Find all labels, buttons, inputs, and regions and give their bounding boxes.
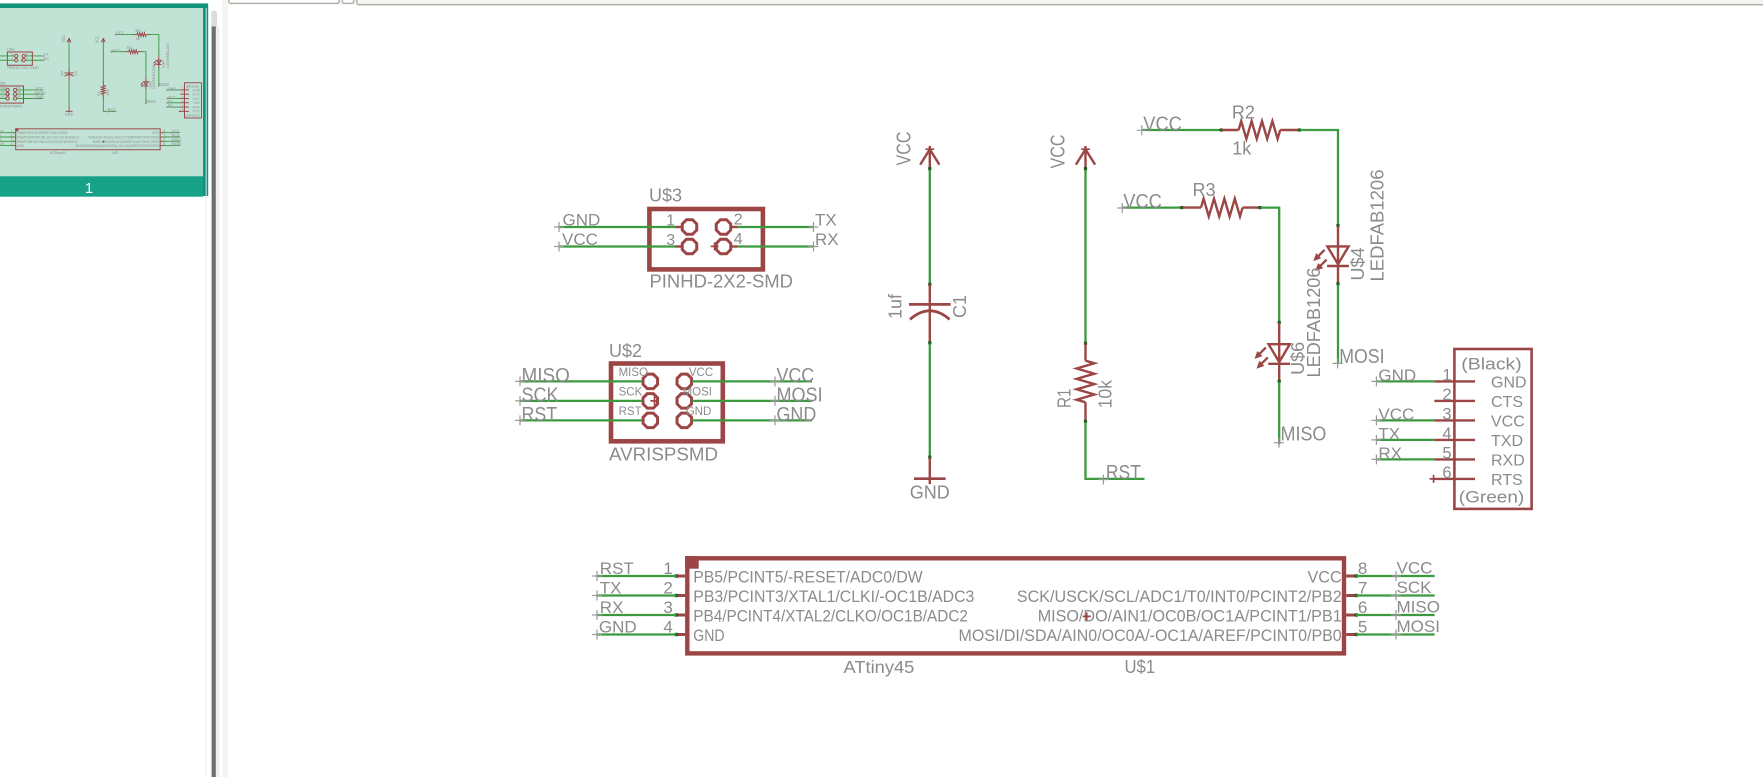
svg-text:VCC: VCC bbox=[152, 131, 160, 135]
svg-text:1k: 1k bbox=[136, 36, 140, 41]
svg-text:RST: RST bbox=[108, 107, 116, 112]
sidebar selection border right bbox=[203, 3, 208, 196]
svg-text:PB4/PCINT4/XTAL2/CLKO/OC1B/ADC: PB4/PCINT4/XTAL2/CLKO/OC1B/ADC2 bbox=[17, 140, 77, 144]
scrollbar thumb top bbox=[211, 11, 217, 30]
svg-text:GND: GND bbox=[0, 142, 5, 146]
svg-text:U$1: U$1 bbox=[112, 150, 119, 155]
schematic main bbox=[515, 102, 1532, 677]
svg-text:PINHD-2X2-SMD: PINHD-2X2-SMD bbox=[7, 65, 39, 70]
svg-text:SCK: SCK bbox=[172, 134, 180, 138]
sidebar thumbnail mint background bbox=[0, 8, 203, 176]
svg-text:5: 5 bbox=[182, 104, 184, 108]
svg-text:TXD: TXD bbox=[193, 101, 200, 105]
svg-text:AVRISPSMD: AVRISPSMD bbox=[0, 103, 23, 108]
scrollbar track edge bbox=[205, 8, 208, 777]
svg-text:ATtiny45: ATtiny45 bbox=[50, 151, 66, 155]
toolbar strip background bbox=[222, 0, 1763, 5]
svg-text:U$3: U$3 bbox=[7, 46, 15, 51]
svg-text:VCC: VCC bbox=[172, 129, 180, 133]
svg-text:VCC: VCC bbox=[116, 31, 124, 36]
svg-text:VCC: VCC bbox=[168, 95, 176, 99]
svg-text:MOSI: MOSI bbox=[172, 142, 182, 146]
svg-text:R3: R3 bbox=[127, 45, 133, 50]
svg-text:GND: GND bbox=[65, 112, 74, 117]
svg-text:VCC: VCC bbox=[61, 35, 66, 42]
svg-text:1uf: 1uf bbox=[59, 70, 64, 76]
svg-text:TX: TX bbox=[168, 100, 173, 104]
svg-text:3: 3 bbox=[182, 95, 184, 99]
svg-text:MISO: MISO bbox=[146, 99, 157, 104]
svg-text:GND: GND bbox=[193, 88, 201, 92]
svg-text:(Black): (Black) bbox=[186, 84, 199, 88]
svg-text:GND: GND bbox=[17, 144, 24, 148]
sidebar page bar bbox=[0, 176, 203, 197]
svg-text:RX: RX bbox=[44, 57, 50, 61]
svg-text:TX: TX bbox=[44, 53, 49, 57]
svg-text:R1: R1 bbox=[96, 91, 101, 95]
svg-text:(Green): (Green) bbox=[185, 114, 199, 118]
svg-text:RST: RST bbox=[1, 95, 6, 98]
toolbar long field bbox=[357, 0, 1763, 5]
svg-text:2: 2 bbox=[182, 91, 184, 95]
svg-text:RXD: RXD bbox=[193, 105, 201, 109]
svg-text:GND: GND bbox=[35, 95, 44, 100]
svg-text:1: 1 bbox=[182, 87, 184, 91]
svg-text:RTS: RTS bbox=[193, 110, 201, 114]
svg-text:PB5/PCINT5/-RESET/ADC0/DW: PB5/PCINT5/-RESET/ADC0/DW bbox=[17, 131, 68, 135]
svg-text:6: 6 bbox=[182, 108, 184, 112]
svg-text:GND: GND bbox=[168, 87, 177, 91]
svg-text:1: 1 bbox=[85, 180, 93, 197]
sidebar thumbnail mini schematic bbox=[0, 28, 201, 155]
svg-text:LEDFAB1206: LEDFAB1206 bbox=[165, 42, 170, 67]
svg-text:LEDFAB1206: LEDFAB1206 bbox=[151, 64, 156, 89]
svg-text:CTS: CTS bbox=[193, 93, 201, 97]
svg-text:RX: RX bbox=[168, 104, 174, 108]
svg-text:MISO: MISO bbox=[1, 87, 7, 90]
svg-text:PB3/PCINT3/XTAL1/CLKI/-OC1B/AD: PB3/PCINT3/XTAL1/CLKI/-OC1B/ADC3 bbox=[17, 135, 79, 139]
canvas left tint bbox=[222, 5, 227, 777]
svg-text:VCC: VCC bbox=[95, 36, 100, 43]
svg-text:MOSI: MOSI bbox=[159, 82, 169, 87]
svg-text:C1: C1 bbox=[73, 71, 78, 76]
svg-text:VCC: VCC bbox=[193, 97, 201, 101]
svg-text:U$2: U$2 bbox=[0, 81, 6, 86]
svg-text:SCK: SCK bbox=[1, 91, 6, 94]
splitter light edge bbox=[216, 27, 219, 777]
splitter dark bar bbox=[212, 27, 216, 777]
sidebar selection border top bbox=[0, 3, 203, 8]
svg-text:SCK/USCK/SCL/ADC1/T0/INT0/PCIN: SCK/USCK/SCL/ADC1/T0/INT0/PCINT2/PB2 bbox=[88, 135, 159, 139]
svg-text:MISO: MISO bbox=[172, 138, 182, 142]
svg-text:VCC: VCC bbox=[112, 48, 120, 53]
toolbar button 2 bbox=[342, 0, 353, 3]
svg-text:R2: R2 bbox=[136, 28, 141, 33]
svg-text:MOSI: MOSI bbox=[15, 91, 22, 94]
svg-text:GND: GND bbox=[15, 95, 21, 98]
svg-text:4: 4 bbox=[182, 100, 184, 104]
toolbar button 1 bbox=[229, 0, 339, 3]
svg-text:VCC: VCC bbox=[16, 87, 21, 90]
svg-text:MOSI/DI/SDA/AIN0/OC0A/-OC1A/AR: MOSI/DI/SDA/AIN0/OC0A/-OC1A/AREF/PCINT0/… bbox=[75, 144, 159, 148]
svg-text:10k: 10k bbox=[105, 90, 110, 96]
